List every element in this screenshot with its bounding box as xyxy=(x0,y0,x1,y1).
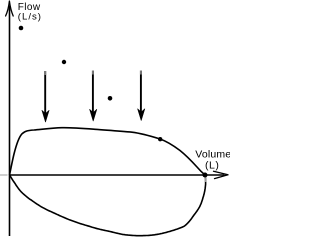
dot 4 on curve xyxy=(158,137,162,141)
flow-volume loop: lower inspiratory curve xyxy=(10,175,206,236)
gray segment below loop-closing dot xyxy=(204,177,206,182)
arrow 2 shaft xyxy=(92,71,94,114)
arrow 1 head xyxy=(42,110,49,122)
svg-text:(L/s): (L/s) xyxy=(18,12,42,23)
dot 3 xyxy=(108,96,113,101)
arrow 3 gray shaft top xyxy=(140,71,142,75)
arrow 1 shaft xyxy=(44,71,46,115)
arrow 2 head xyxy=(90,109,97,121)
dot 1 xyxy=(19,26,24,31)
x-axis arrowhead xyxy=(214,171,229,178)
flow-volume loop: upper expiratory curve xyxy=(10,128,206,175)
svg-text:(L): (L) xyxy=(205,160,219,172)
gray stub left of origin xyxy=(0,174,8,176)
arrow 2 gray shaft top xyxy=(92,71,94,75)
arrow 1 gray shaft top xyxy=(44,71,46,75)
arrow 3 head xyxy=(138,109,145,121)
y-axis (Flow axis) xyxy=(9,6,11,236)
dot 5 loop closing point xyxy=(203,173,208,178)
arrow 3 shaft xyxy=(140,71,142,114)
dot 2 xyxy=(62,60,66,64)
y-axis arrowhead xyxy=(6,1,14,16)
x-axis (Volume axis) xyxy=(9,174,225,176)
